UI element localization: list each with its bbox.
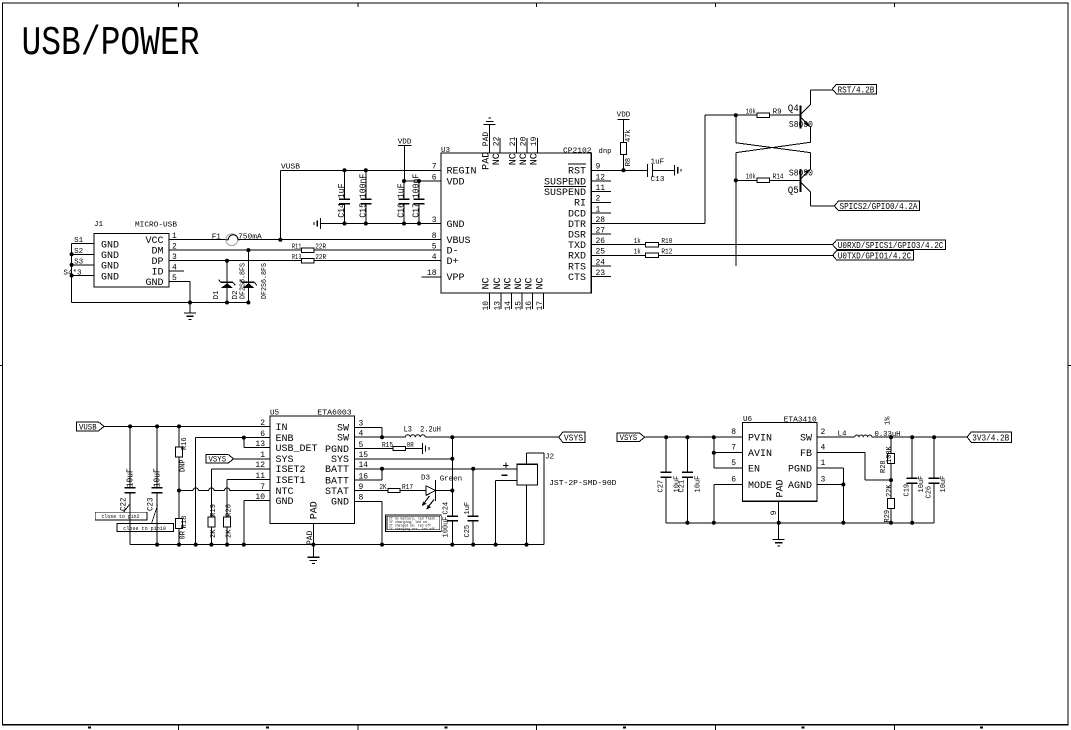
svg-text:24: 24	[596, 258, 606, 267]
svg-text:IN: IN	[276, 423, 288, 434]
svg-text:R18: R18	[181, 516, 189, 529]
svg-text:R15: R15	[382, 442, 393, 450]
svg-text:21: 21	[509, 136, 518, 146]
svg-text:GND: GND	[145, 278, 163, 289]
svg-text:C25: C25	[464, 525, 472, 538]
svg-text:5: 5	[432, 243, 437, 252]
svg-text:7: 7	[432, 163, 437, 172]
svg-text:U0TXD/GPIO1/4.2C: U0TXD/GPIO1/4.2C	[838, 251, 912, 262]
svg-text:VPP: VPP	[447, 273, 465, 284]
svg-text:R10: R10	[661, 238, 672, 246]
svg-text:VSYS: VSYS	[620, 434, 638, 443]
svg-text:Green: Green	[440, 475, 463, 483]
svg-text:SPICS2/GPIO0/4.2A: SPICS2/GPIO0/4.2A	[840, 201, 918, 212]
svg-text:1uF: 1uF	[651, 158, 665, 166]
svg-text:R11: R11	[292, 243, 302, 251]
svg-text:NC: NC	[535, 277, 546, 289]
svg-text:18: 18	[427, 269, 437, 278]
svg-text:VDD: VDD	[617, 111, 631, 119]
svg-text:25: 25	[596, 248, 606, 257]
svg-text:C22: C22	[120, 497, 129, 511]
svg-text:2: 2	[821, 428, 826, 437]
svg-text:VBUS: VBUS	[447, 236, 471, 247]
svg-text:7: 7	[731, 444, 736, 453]
svg-text:DNP: DNP	[179, 459, 187, 472]
svg-text:AGND: AGND	[788, 481, 812, 492]
svg-text:20: 20	[520, 136, 529, 146]
svg-text:SW: SW	[337, 434, 349, 445]
svg-text:0R: 0R	[407, 442, 415, 450]
svg-text:CP2102: CP2102	[563, 148, 592, 156]
svg-text:GND: GND	[101, 262, 119, 273]
svg-text:3V3/4.2B: 3V3/4.2B	[972, 432, 1009, 443]
svg-text:S4*3: S4*3	[63, 270, 82, 278]
svg-text:USB/POWER: USB/POWER	[22, 21, 200, 67]
svg-text:F1: F1	[212, 233, 222, 241]
svg-text:4: 4	[432, 253, 437, 262]
svg-text:14: 14	[504, 301, 513, 311]
svg-text:L3 2.2uH: L3 2.2uH	[404, 425, 442, 434]
svg-text:S2: S2	[74, 248, 84, 256]
svg-text:D3: D3	[421, 475, 431, 483]
svg-text:17: 17	[536, 301, 545, 311]
svg-text:2K: 2K	[226, 529, 234, 538]
svg-text:8: 8	[432, 232, 437, 241]
svg-text:BATT: BATT	[325, 476, 349, 487]
svg-text:S8050: S8050	[789, 120, 813, 130]
svg-text:2: 2	[260, 419, 265, 428]
svg-text:28: 28	[596, 216, 606, 225]
svg-text:ISET1: ISET1	[276, 476, 306, 487]
svg-text:D1: D1	[213, 290, 221, 300]
svg-text:6: 6	[260, 430, 265, 439]
svg-text:NC: NC	[493, 277, 504, 289]
svg-text:750mA: 750mA	[238, 234, 262, 242]
svg-text:Q5: Q5	[788, 185, 799, 196]
svg-text:100uF: 100uF	[443, 516, 451, 537]
svg-text:EN: EN	[748, 465, 760, 476]
svg-text:15: 15	[359, 451, 369, 460]
svg-text:2: 2	[596, 195, 601, 204]
svg-text:JST-2P-SMD-90D: JST-2P-SMD-90D	[549, 480, 617, 488]
svg-text:1: 1	[821, 459, 826, 468]
svg-text:8: 8	[359, 494, 364, 503]
svg-text:5: 5	[359, 441, 364, 450]
svg-text:Q4: Q4	[788, 103, 799, 114]
svg-text:PVIN: PVIN	[748, 434, 772, 445]
svg-text:1: 1	[260, 451, 265, 460]
svg-text:9: 9	[770, 510, 779, 515]
svg-text:C16: C16	[396, 203, 407, 218]
svg-text:4: 4	[359, 430, 364, 439]
svg-text:10: 10	[255, 493, 265, 502]
svg-text:5: 5	[731, 459, 736, 468]
svg-text:R12: R12	[661, 249, 672, 257]
svg-text:GND: GND	[101, 251, 119, 262]
svg-text:close to pin10: close to pin10	[123, 526, 166, 532]
svg-text:U5: U5	[270, 409, 280, 417]
svg-text:0.33uH: 0.33uH	[875, 431, 901, 439]
svg-text:NC: NC	[503, 277, 514, 289]
svg-text:C27: C27	[657, 480, 665, 493]
svg-text:J1: J1	[94, 221, 104, 229]
svg-text:DCD: DCD	[568, 209, 586, 220]
svg-text:10k: 10k	[746, 174, 756, 182]
svg-text:10uF: 10uF	[125, 468, 135, 487]
svg-text:DF2S6.8FS: DF2S6.8FS	[261, 263, 269, 299]
svg-text:16: 16	[525, 301, 534, 311]
svg-text:1uF: 1uF	[464, 502, 472, 515]
svg-text:STAT: STAT	[325, 487, 349, 498]
svg-text:6: 6	[731, 475, 736, 484]
svg-text:22K: 22K	[886, 484, 894, 497]
svg-text:USB_DET: USB_DET	[276, 444, 318, 455]
svg-text:PGND: PGND	[788, 465, 812, 476]
svg-text:FB: FB	[800, 449, 812, 460]
svg-text:10uF: 10uF	[940, 476, 948, 493]
svg-text:9: 9	[596, 163, 601, 172]
svg-text:47k: 47k	[625, 129, 633, 142]
svg-text:R16: R16	[181, 437, 189, 450]
svg-text:NC: NC	[481, 277, 492, 289]
svg-text:ETA6003: ETA6003	[317, 409, 352, 417]
svg-text:23: 23	[596, 269, 606, 278]
svg-text:NC: NC	[530, 153, 541, 165]
svg-text:ETA3410: ETA3410	[784, 417, 817, 425]
svg-text:10uF: 10uF	[694, 476, 702, 493]
svg-text:9: 9	[359, 483, 364, 492]
svg-text:DM: DM	[151, 247, 163, 258]
svg-text:12: 12	[255, 461, 265, 470]
svg-text:C19: C19	[903, 484, 911, 497]
svg-text:1uF: 1uF	[336, 183, 347, 198]
svg-text:VSYS: VSYS	[209, 456, 227, 465]
svg-text:3: 3	[432, 216, 437, 225]
svg-text:C24: C24	[443, 502, 451, 515]
svg-text:R17: R17	[402, 484, 413, 492]
svg-text:AVIN: AVIN	[748, 449, 772, 460]
svg-text:6: 6	[432, 173, 437, 182]
svg-text:NC: NC	[492, 153, 503, 165]
svg-text:MODE: MODE	[748, 481, 772, 492]
svg-text:GND: GND	[101, 241, 119, 252]
svg-text:100nF: 100nF	[411, 174, 422, 199]
svg-text:DSR: DSR	[568, 231, 586, 242]
svg-text:dnp: dnp	[599, 148, 612, 156]
svg-text:C26: C26	[925, 486, 933, 499]
svg-text:22R: 22R	[315, 243, 327, 251]
svg-text:GND: GND	[447, 220, 465, 231]
svg-text:RI: RI	[574, 199, 586, 210]
svg-text:13: 13	[493, 301, 502, 311]
svg-text:RTS: RTS	[568, 262, 586, 273]
svg-text:26: 26	[596, 237, 606, 246]
svg-text:19: 19	[530, 136, 539, 146]
svg-text:GND: GND	[101, 272, 119, 283]
svg-text:1%: 1%	[885, 416, 893, 425]
svg-text:1k: 1k	[634, 249, 641, 257]
svg-text:S3: S3	[74, 258, 84, 266]
svg-text:PAD: PAD	[482, 152, 493, 170]
svg-text:U3: U3	[441, 147, 451, 155]
svg-text:12: 12	[596, 173, 606, 182]
svg-text:BATT: BATT	[325, 465, 349, 476]
svg-text:DTR: DTR	[568, 220, 586, 231]
svg-text:C14: C14	[336, 203, 347, 218]
svg-text:11: 11	[255, 472, 265, 481]
svg-text:MICRO-USB: MICRO-USB	[135, 222, 177, 230]
svg-text:NC: NC	[514, 277, 525, 289]
svg-text:C15: C15	[358, 203, 369, 218]
svg-text:GND: GND	[331, 498, 349, 509]
svg-text:1k: 1k	[634, 238, 641, 246]
svg-text:PAD: PAD	[776, 479, 787, 497]
svg-text:If charging err, led off.: If charging err, led off.	[389, 527, 437, 532]
svg-text:D-: D-	[447, 247, 459, 258]
svg-text:U0RXD/SPICS1/GPIO3/4.2C: U0RXD/SPICS1/GPIO3/4.2C	[838, 240, 944, 251]
svg-text:C13: C13	[651, 176, 665, 184]
svg-text:NC: NC	[524, 277, 535, 289]
svg-text:L4: L4	[838, 431, 847, 439]
svg-text:VUSB: VUSB	[79, 423, 97, 432]
svg-text:J2: J2	[545, 454, 555, 462]
svg-text:27: 27	[596, 227, 606, 236]
svg-text:RST: RST	[568, 167, 586, 178]
svg-text:2K: 2K	[380, 484, 388, 492]
svg-text:10: 10	[482, 301, 491, 311]
svg-text:8: 8	[731, 428, 736, 437]
svg-text:VCC: VCC	[145, 236, 163, 247]
svg-text:3: 3	[359, 420, 364, 429]
svg-text:3: 3	[821, 475, 826, 484]
svg-text:SUSPEND: SUSPEND	[544, 188, 586, 199]
svg-text:DF2S6.8FS: DF2S6.8FS	[239, 263, 247, 299]
svg-text:7: 7	[260, 483, 265, 492]
svg-text:R19: R19	[210, 504, 218, 517]
svg-text:10uF: 10uF	[152, 468, 162, 487]
svg-text:R13: R13	[292, 254, 302, 262]
svg-text:DP: DP	[151, 257, 163, 268]
svg-text:D+: D+	[447, 257, 459, 268]
svg-text:VDD: VDD	[447, 177, 465, 188]
svg-text:TXD: TXD	[568, 241, 586, 252]
svg-text:4: 4	[821, 444, 826, 453]
svg-text:U6: U6	[743, 416, 753, 424]
svg-text:11: 11	[596, 184, 606, 193]
svg-text:C21: C21	[679, 480, 687, 493]
svg-text:100nF: 100nF	[358, 174, 369, 199]
svg-text:R8: R8	[625, 158, 633, 166]
svg-text:0R: 0R	[180, 530, 188, 539]
svg-text:1uF: 1uF	[396, 183, 407, 198]
svg-text:S8050: S8050	[789, 168, 813, 178]
svg-text:PAD: PAD	[310, 501, 321, 519]
svg-text:100K: 100K	[886, 445, 894, 463]
svg-text:SW: SW	[800, 434, 812, 445]
svg-text:R20: R20	[226, 504, 234, 517]
svg-text:13: 13	[255, 440, 265, 449]
svg-text:CTS: CTS	[568, 273, 586, 284]
svg-text:close to pin2: close to pin2	[102, 514, 140, 520]
svg-text:RXD: RXD	[568, 252, 586, 263]
svg-text:1: 1	[596, 205, 601, 214]
svg-text:16: 16	[359, 472, 369, 481]
svg-text:RST/4.2B: RST/4.2B	[838, 84, 875, 95]
svg-text:10k: 10k	[746, 108, 756, 116]
svg-text:VSYS: VSYS	[564, 433, 583, 444]
svg-text:R29: R29	[884, 510, 892, 523]
svg-text:ISET2: ISET2	[276, 465, 306, 476]
svg-text:22: 22	[493, 136, 502, 146]
svg-text:15: 15	[514, 301, 523, 311]
svg-text:GND: GND	[276, 497, 294, 508]
svg-text:C23: C23	[147, 497, 156, 511]
svg-text:2K: 2K	[210, 529, 218, 538]
svg-text:NC: NC	[509, 153, 520, 165]
svg-text:14: 14	[359, 461, 369, 470]
svg-text:22R: 22R	[315, 254, 327, 262]
svg-text:C17: C17	[411, 203, 422, 218]
svg-text:S1: S1	[74, 237, 84, 245]
svg-text:REGIN: REGIN	[447, 167, 477, 178]
